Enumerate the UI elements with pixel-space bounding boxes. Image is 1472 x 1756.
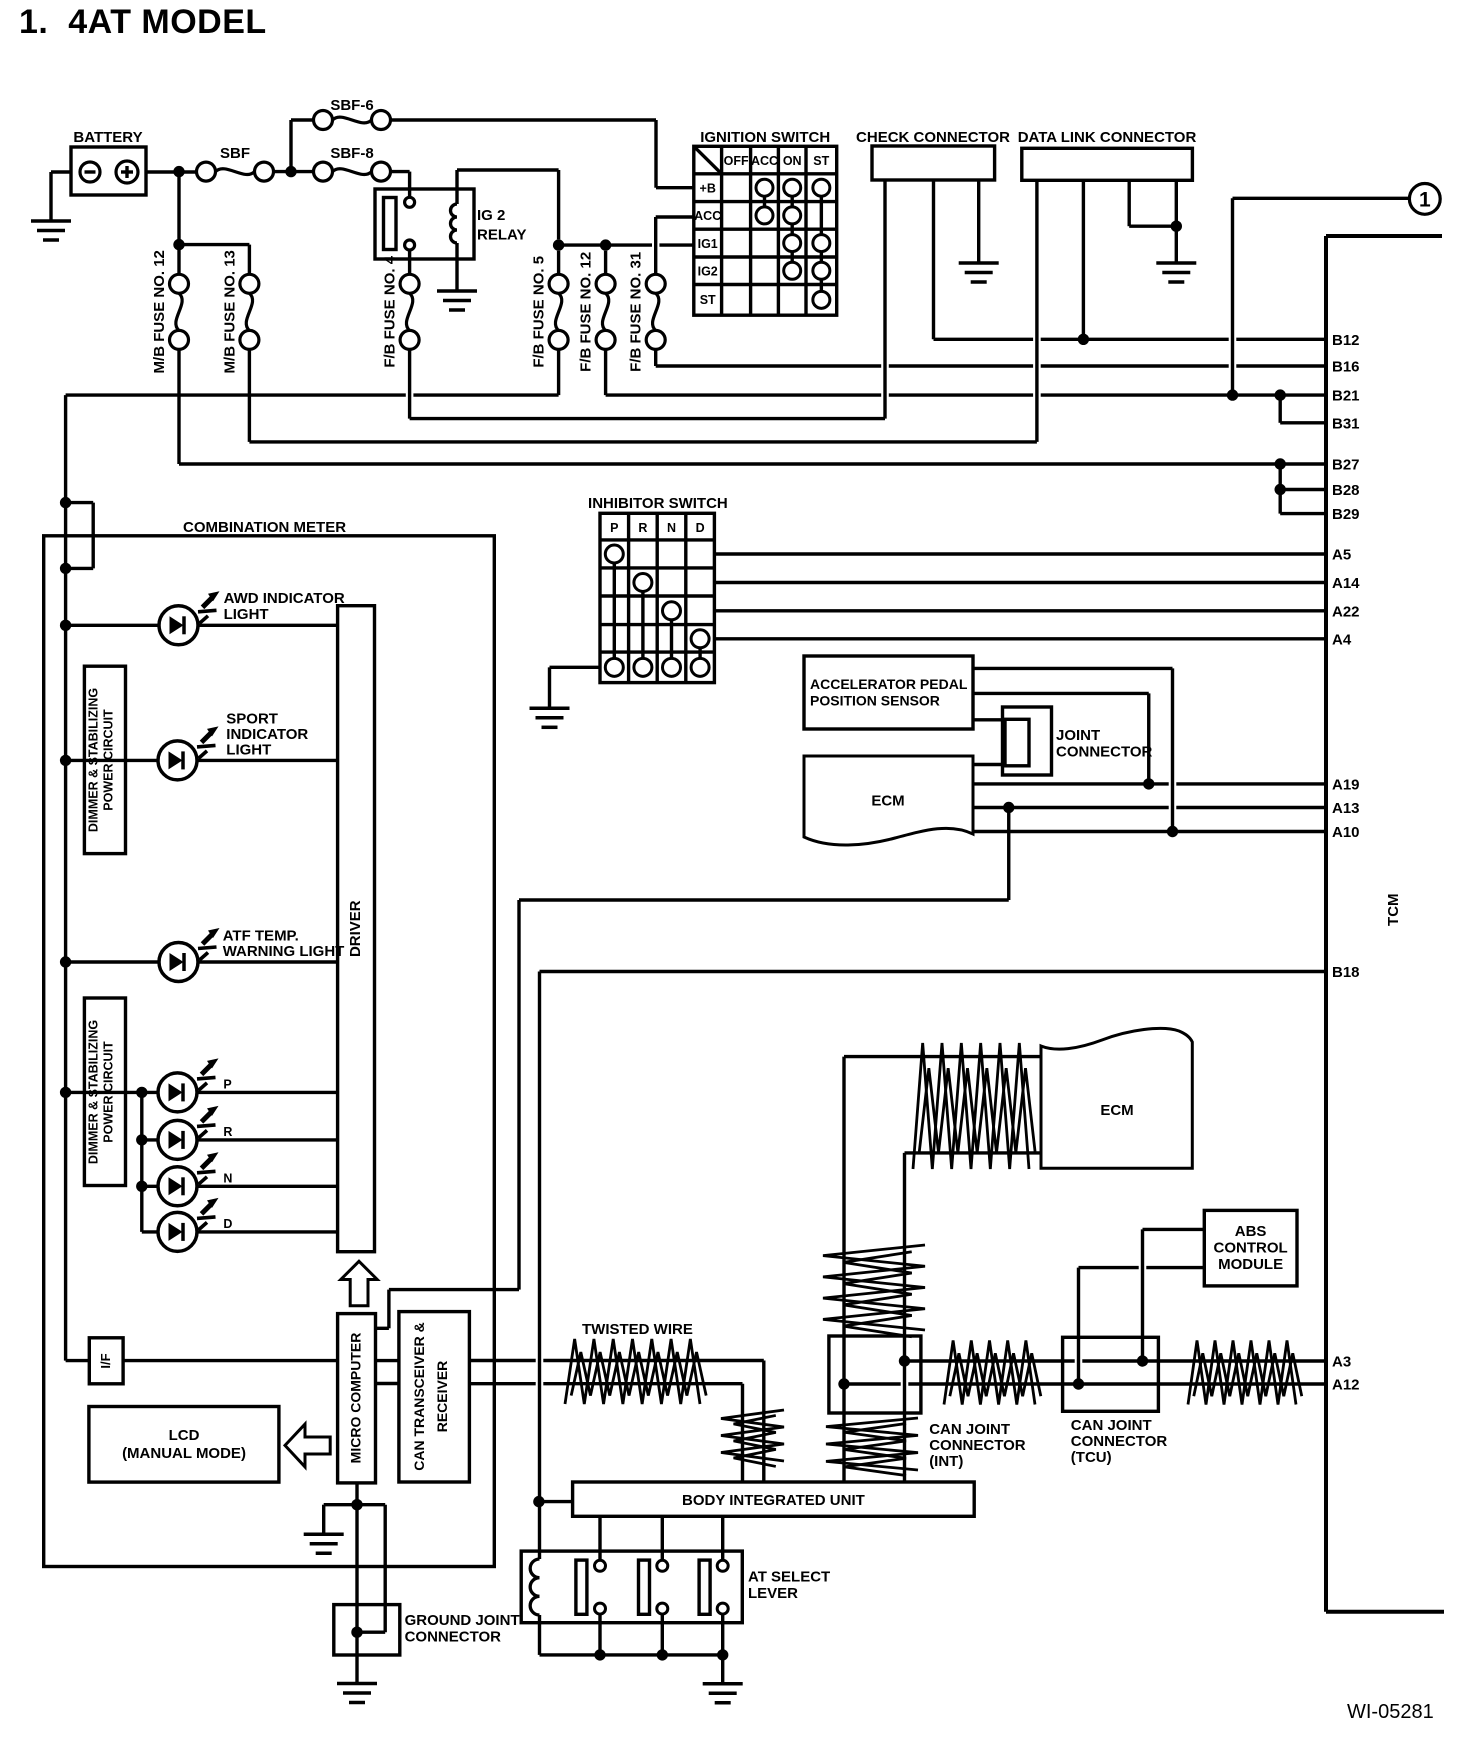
svg-text:COMBINATION METER: COMBINATION METER: [183, 519, 346, 536]
LED sport indicator light: [197, 759, 338, 762]
wire PRND feed: [140, 1092, 143, 1232]
node: [657, 1649, 668, 1660]
svg-text:F/B FUSE NO. 31: F/B FUSE NO. 31: [628, 252, 645, 372]
wire CAN L from meter: [469, 1382, 535, 1385]
node: [1227, 389, 1238, 400]
svg-text:CAN TRANSCEIVER &: CAN TRANSCEIVER &: [411, 1322, 427, 1471]
svg-text:ABS: ABS: [1235, 1223, 1267, 1240]
svg-text:JOINT: JOINT: [1056, 727, 1100, 744]
svg-text:B29: B29: [1332, 506, 1360, 523]
CAN transceiver and receiver block: [399, 1312, 470, 1482]
node: [60, 620, 71, 631]
svg-text:TCM: TCM: [1385, 893, 1402, 926]
node: [1275, 458, 1286, 469]
svg-text:CONNECTOR: CONNECTOR: [1071, 1433, 1168, 1450]
svg-text:POWER CIRCUIT: POWER CIRCUIT: [102, 1041, 116, 1143]
svg-text:CONNECTOR: CONNECTOR: [929, 1437, 1026, 1454]
wire B27: [177, 349, 180, 464]
wire: [146, 170, 197, 173]
svg-text:ACCELERATOR PEDAL: ACCELERATOR PEDAL: [810, 676, 968, 692]
svg-text:LCD: LCD: [169, 1427, 200, 1444]
wire check pin1: [883, 180, 886, 419]
wire BIU pin2: [661, 1516, 664, 1560]
svg-text:1: 1: [1419, 189, 1431, 212]
node: [899, 1355, 910, 1366]
wire B29: [1280, 512, 1326, 515]
ground: [304, 1532, 344, 1536]
svg-text:A14: A14: [1332, 575, 1360, 592]
svg-text:GROUND JOINT: GROUND JOINT: [405, 1612, 520, 1629]
LED D: [142, 1230, 158, 1233]
accelerator pedal position sensor: [804, 656, 973, 729]
wire A13 branch to CAN micro computer: [1007, 808, 1010, 901]
svg-text:B27: B27: [1332, 457, 1360, 474]
ground: [337, 1682, 377, 1686]
LCD block: [89, 1407, 279, 1483]
off-page connector 1: [1233, 197, 1410, 200]
twisted wire symbol: [944, 1341, 1035, 1405]
svg-text:ST: ST: [700, 293, 716, 307]
svg-text:(INT): (INT): [929, 1453, 963, 1470]
svg-text:MODULE: MODULE: [1218, 1256, 1283, 1273]
svg-text:P: P: [223, 1078, 231, 1092]
wire inhibitor ground: [550, 666, 601, 669]
svg-text:POWER CIRCUIT: POWER CIRCUIT: [102, 709, 116, 811]
svg-text:1. 4AT MODEL: 1. 4AT MODEL: [19, 3, 267, 41]
driver block: [338, 606, 375, 1252]
svg-text:WI-05281: WI-05281: [1347, 1701, 1434, 1723]
node: [1275, 484, 1286, 495]
svg-text:B16: B16: [1332, 359, 1360, 376]
wire: [123, 1359, 338, 1362]
ignition contacts: [763, 188, 766, 216]
wire AT lever ground rail: [540, 1653, 723, 1656]
ground: [1156, 261, 1196, 265]
wire fuse13 to data link: [248, 349, 251, 442]
node: [1003, 802, 1014, 813]
wire: [66, 1359, 90, 1362]
node SBF junction: [285, 166, 296, 177]
wire to ignition IG1: [606, 243, 652, 246]
svg-text:R: R: [223, 1125, 232, 1139]
wire ECM to joint connector: [973, 763, 1005, 766]
svg-text:LEVER: LEVER: [748, 1585, 798, 1602]
svg-text:F/B FUSE NO. 5: F/B FUSE NO. 5: [531, 256, 548, 368]
svg-text:B12: B12: [1332, 332, 1360, 349]
wire: [721, 1655, 724, 1684]
ECM engine side: [1041, 1028, 1192, 1168]
wire A3: [905, 1359, 1075, 1362]
node: [838, 1378, 849, 1389]
svg-text:RELAY: RELAY: [477, 227, 526, 244]
svg-text:R: R: [638, 521, 647, 535]
wire: [274, 170, 314, 173]
wire A5: [714, 552, 1326, 555]
node: [60, 497, 71, 508]
svg-text:CAN JOINT: CAN JOINT: [1071, 1417, 1152, 1434]
ground: [437, 289, 477, 293]
node: [60, 755, 71, 766]
wire sensor out1: [973, 667, 1173, 670]
twisted wire symbol: [826, 1418, 918, 1470]
svg-text:A22: A22: [1332, 603, 1360, 620]
svg-text:+B: +B: [700, 182, 716, 196]
svg-text:CONNECTOR: CONNECTOR: [1056, 744, 1153, 761]
AT lever switch 2: [639, 1560, 650, 1614]
svg-text:B21: B21: [1332, 388, 1360, 405]
AT lever switch 3: [699, 1560, 710, 1614]
svg-text:(TCU): (TCU): [1071, 1449, 1112, 1466]
wire data link pin3: [1127, 180, 1130, 226]
wire B18 drop to AT select lever: [538, 972, 541, 1560]
svg-text:M/B FUSE NO. 13: M/B FUSE NO. 13: [221, 250, 238, 373]
AT select lever: [521, 1551, 742, 1623]
svg-text:A13: A13: [1332, 800, 1360, 817]
wire: [376, 1382, 399, 1385]
AT select lever coil: [530, 1559, 539, 1615]
svg-text:ECM: ECM: [871, 793, 904, 810]
twisted wire symbol: [823, 1245, 925, 1330]
wire: [539, 1500, 573, 1503]
wire: [357, 1503, 385, 1506]
wire: [289, 120, 292, 172]
wire micro computer ground: [355, 1483, 358, 1684]
wire data link pin2: [1082, 180, 1085, 339]
svg-text:IGNITION SWITCH: IGNITION SWITCH: [700, 129, 830, 146]
wire B21: [604, 349, 607, 395]
svg-text:ACC: ACC: [694, 209, 721, 223]
svg-text:RECEIVER: RECEIVER: [434, 1361, 450, 1433]
svg-text:LIGHT: LIGHT: [224, 606, 269, 623]
node: [60, 1087, 71, 1098]
ground joint connector: [334, 1605, 400, 1655]
wire ignition ACC to fuse31: [656, 215, 694, 218]
svg-text:CHECK CONNECTOR: CHECK CONNECTOR: [856, 129, 1010, 146]
svg-text:SBF-6: SBF-6: [330, 97, 373, 114]
CAN joint connector TCU: [1063, 1337, 1159, 1411]
wire: [1231, 198, 1234, 395]
wire: [559, 243, 606, 246]
CAN joint connector INT: [829, 1336, 921, 1413]
node: [173, 239, 184, 250]
I/F block: [89, 1338, 123, 1384]
svg-text:A12: A12: [1332, 1377, 1360, 1394]
twisted wire symbol: [1188, 1341, 1296, 1405]
wire: [376, 1359, 399, 1362]
svg-text:BODY INTEGRATED UNIT: BODY INTEGRATED UNIT: [682, 1492, 865, 1509]
wire sensor out3: [973, 718, 1005, 721]
node: [1143, 778, 1154, 789]
svg-text:A4: A4: [1332, 631, 1352, 648]
svg-text:B18: B18: [1332, 964, 1360, 981]
svg-text:CAN JOINT: CAN JOINT: [929, 1421, 1010, 1438]
node: [533, 1496, 544, 1507]
svg-text:DIMMER & STABILIZING: DIMMER & STABILIZING: [87, 688, 101, 832]
node: [1167, 826, 1178, 837]
svg-text:TWISTED WIRE: TWISTED WIRE: [582, 1321, 693, 1338]
svg-text:ATF TEMP.: ATF TEMP.: [223, 928, 299, 945]
ground: [703, 1682, 743, 1686]
wire B31: [1278, 395, 1281, 423]
ABS control module: [1204, 1210, 1297, 1286]
wire A12: [844, 1382, 901, 1385]
node: [351, 1499, 362, 1510]
node: [136, 1087, 147, 1098]
svg-text:AT SELECT: AT SELECT: [748, 1569, 830, 1586]
micro computer block: [338, 1314, 376, 1483]
wire B21 feed from meter branch: [557, 349, 560, 395]
wire ECM CAN H: [844, 1055, 1041, 1058]
svg-text:DATA LINK CONNECTOR: DATA LINK CONNECTOR: [1018, 129, 1197, 146]
svg-text:A10: A10: [1332, 824, 1360, 841]
twisted wire symbol: [913, 1043, 1029, 1169]
node: [1275, 389, 1286, 400]
svg-text:DRIVER: DRIVER: [347, 900, 364, 957]
wire check pin3: [977, 180, 980, 263]
wire meter feed vertical: [64, 395, 67, 1361]
svg-text:A19: A19: [1332, 776, 1360, 793]
ground: [959, 261, 999, 265]
TCM: [1324, 236, 1328, 1612]
wire relay coil feed: [457, 168, 559, 171]
ground: [530, 707, 570, 711]
svg-text:A3: A3: [1332, 1354, 1351, 1371]
svg-text:POSITION SENSOR: POSITION SENSOR: [810, 693, 940, 709]
svg-text:CONNECTOR: CONNECTOR: [405, 1629, 502, 1646]
arrow up to driver: [341, 1261, 377, 1306]
node: [1171, 221, 1182, 232]
body integrated unit: [573, 1482, 975, 1516]
svg-text:WARNING LIGHT: WARNING LIGHT: [223, 943, 345, 960]
node: [1137, 1355, 1148, 1366]
svg-text:F/B FUSE NO. 4: F/B FUSE NO. 4: [382, 255, 399, 367]
wire ABS CAN L: [1077, 1268, 1080, 1384]
wire feed jog: [66, 501, 94, 504]
wire: [391, 170, 410, 173]
svg-text:SBF: SBF: [220, 145, 250, 162]
wire B18: [540, 970, 1327, 973]
AT lever switch 1: [576, 1560, 587, 1614]
wire A4: [714, 637, 1326, 640]
wire: [179, 243, 249, 246]
svg-text:N: N: [223, 1171, 232, 1185]
wire B12: [934, 338, 1034, 341]
svg-text:ACC: ACC: [751, 154, 778, 168]
svg-text:A5: A5: [1332, 547, 1351, 564]
svg-text:B31: B31: [1332, 415, 1360, 432]
node: [351, 1627, 362, 1638]
svg-text:IG2: IG2: [698, 265, 718, 279]
wire data link pin4: [1175, 180, 1178, 263]
svg-text:ECM: ECM: [1100, 1102, 1133, 1119]
svg-text:M/B FUSE NO. 12: M/B FUSE NO. 12: [151, 250, 168, 373]
wire: [51, 170, 71, 173]
wire A22: [714, 609, 1326, 612]
wire ABS CAN H: [1141, 1229, 1144, 1361]
wire BIU pin3: [721, 1516, 724, 1560]
svg-text:I/F: I/F: [98, 1353, 113, 1368]
svg-text:OFF: OFF: [724, 154, 749, 168]
wire BIU pin1: [598, 1516, 601, 1560]
ground: [31, 219, 71, 223]
joint connector: [1003, 707, 1052, 775]
node: [1078, 334, 1089, 345]
node: [600, 239, 611, 250]
wire B16: [654, 349, 657, 366]
node: [717, 1649, 728, 1660]
node: [1073, 1378, 1084, 1389]
wire A10: [973, 830, 1326, 833]
svg-text:ST: ST: [813, 154, 829, 168]
svg-text:INHIBITOR SWITCH: INHIBITOR SWITCH: [588, 495, 728, 512]
svg-text:D: D: [696, 521, 705, 535]
node: [136, 1134, 147, 1145]
svg-text:SBF-8: SBF-8: [330, 145, 373, 162]
node: [60, 563, 71, 574]
svg-text:D: D: [223, 1217, 232, 1231]
svg-text:IG1: IG1: [698, 237, 718, 251]
svg-text:F/B FUSE NO. 12: F/B FUSE NO. 12: [578, 252, 595, 372]
node battery junction: [173, 166, 184, 177]
wire A13: [973, 806, 1169, 809]
svg-text:B28: B28: [1332, 482, 1360, 499]
node: [594, 1649, 605, 1660]
relay IG2: [375, 189, 474, 259]
node: [136, 1181, 147, 1192]
svg-text:DIMMER & STABILIZING: DIMMER & STABILIZING: [87, 1020, 101, 1164]
node relay output junction: [553, 239, 564, 250]
svg-text:MICRO COMPUTER: MICRO COMPUTER: [348, 1333, 364, 1464]
twisted wire symbol: [721, 1410, 784, 1461]
arrow to LCD: [285, 1424, 330, 1467]
svg-text:IG 2: IG 2: [477, 207, 505, 224]
wire data link pin1: [1035, 180, 1038, 442]
wire A19: [973, 782, 1169, 785]
svg-text:CONTROL: CONTROL: [1214, 1240, 1288, 1257]
svg-text:INDICATOR: INDICATOR: [226, 726, 308, 743]
relay coil: [455, 170, 458, 204]
wire to ignition switch +B: [391, 118, 657, 121]
svg-text:BATTERY: BATTERY: [73, 129, 142, 146]
wire ECM CAN L: [905, 1151, 1042, 1154]
wire B28: [1278, 464, 1281, 514]
svg-text:N: N: [667, 521, 676, 535]
svg-text:LIGHT: LIGHT: [226, 742, 271, 759]
svg-text:AWD INDICATOR: AWD INDICATOR: [224, 590, 345, 607]
wire fuse4 to check connector: [408, 349, 411, 418]
node: [60, 956, 71, 967]
ECM: [804, 756, 973, 845]
wire sensor out2: [973, 692, 1149, 695]
wire CAN H from meter: [469, 1359, 535, 1362]
svg-text:P: P: [610, 521, 618, 535]
wire A14: [714, 581, 1326, 584]
svg-text:(MANUAL MODE): (MANUAL MODE): [122, 1445, 246, 1462]
inhibitor contacts: [613, 554, 616, 667]
svg-text:SPORT: SPORT: [226, 711, 278, 728]
wire check pin2: [932, 180, 935, 339]
svg-text:ON: ON: [783, 154, 802, 168]
